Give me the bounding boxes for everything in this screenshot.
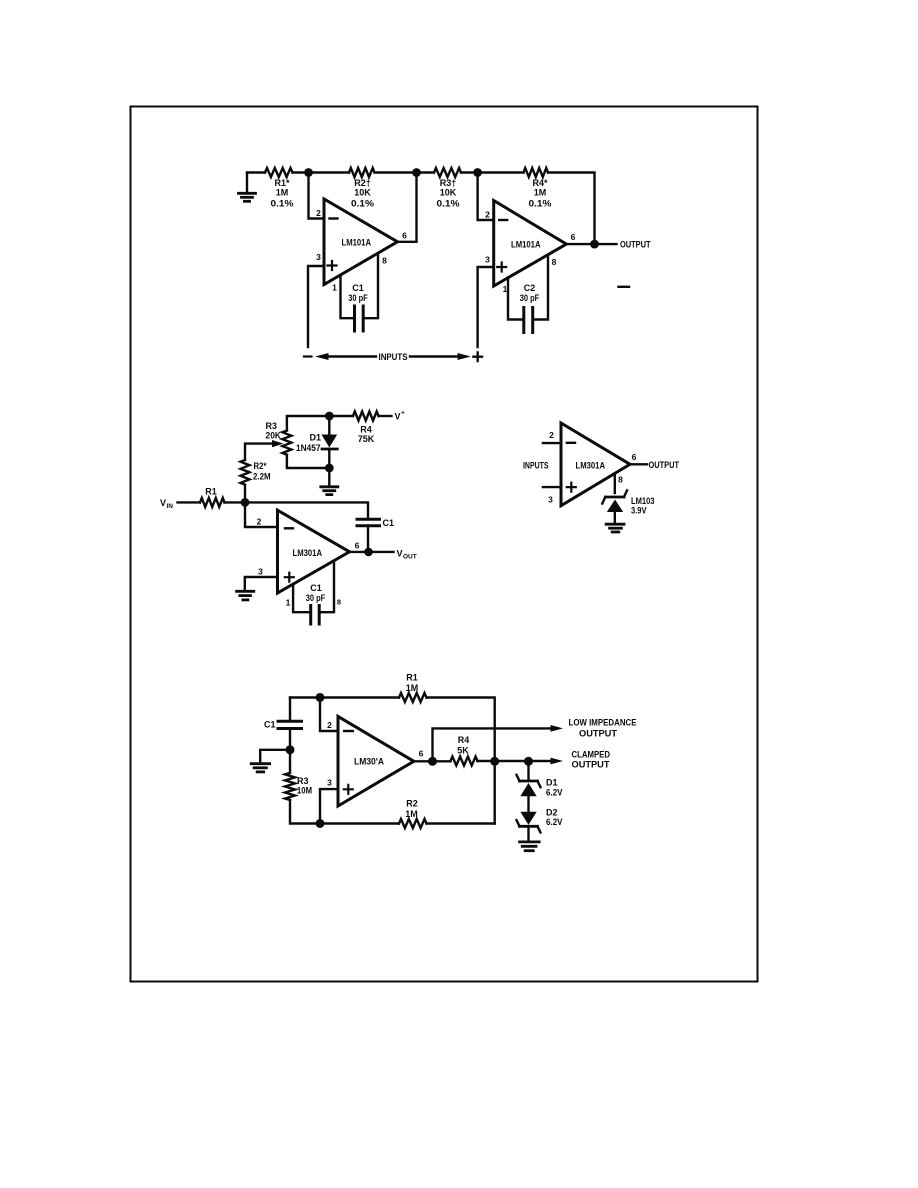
pin 3 label U4 — [548, 495, 553, 505]
node D junction — [241, 498, 250, 507]
svg-text:8: 8 — [552, 257, 557, 267]
pin 2 label U5 — [327, 720, 332, 730]
wire U4 output — [630, 463, 647, 465]
svg-text:IN: IN — [167, 503, 174, 510]
svg-text:C1: C1 — [264, 720, 276, 730]
svg-text:LM101A: LM101A — [511, 240, 541, 250]
svg-text:V: V — [397, 549, 403, 559]
wire VIN to R1 — [178, 501, 201, 503]
svg-text:R1*: R1* — [274, 178, 290, 188]
label CLAMPED OUTPUT — [572, 750, 611, 770]
svg-text:0.1%: 0.1% — [529, 199, 552, 209]
svg-text:3: 3 — [548, 495, 553, 505]
pin 3 stub U4 — [543, 486, 561, 488]
label LOW IMPEDANCE OUTPUT — [569, 718, 637, 739]
capacitor C1 30 pF (U3 comp) pin8 leg — [321, 562, 334, 613]
wire node C to pin 2 of U2 — [478, 173, 494, 221]
pin 6 label U2 — [571, 232, 576, 242]
node E junction — [325, 412, 334, 421]
svg-text:3: 3 — [258, 567, 263, 577]
node H junction — [286, 745, 295, 754]
node C junction — [473, 168, 482, 177]
resistor R2&#8224; 10K 0.1% — [349, 168, 375, 177]
svg-text:2: 2 — [327, 720, 332, 730]
wire node D up to R2* — [244, 485, 246, 503]
svg-text:C1: C1 — [352, 283, 364, 293]
pin 2 label U4 — [549, 430, 554, 440]
op-amp U3 LM301A — [278, 510, 350, 593]
node J junction — [428, 757, 437, 766]
label R3 10M — [297, 776, 312, 796]
svg-text:LM103: LM103 — [631, 496, 655, 506]
svg-text:30 pF: 30 pF — [306, 593, 326, 603]
wire node D to feedback cap corner — [245, 502, 368, 519]
svg-text:INPUTS: INPUTS — [523, 461, 549, 471]
wire R3 bottom to node F — [287, 455, 329, 468]
label R2 1M — [405, 799, 418, 820]
resistor R4* 1M 0.1% — [524, 168, 549, 177]
svg-text:R1: R1 — [205, 487, 217, 497]
svg-text:6.2V: 6.2V — [546, 787, 563, 797]
wire U2 output — [566, 243, 616, 245]
pin 8 leg U4 — [614, 474, 616, 493]
INPUTS arrow line — [304, 353, 471, 360]
svg-text:10M: 10M — [297, 786, 312, 796]
svg-text:6: 6 — [632, 452, 637, 462]
wire R4 to output feedback corner — [548, 173, 595, 244]
wire U1 minus input rail (pin 3 stub and input drop) — [308, 266, 324, 347]
label V+ — [395, 410, 406, 422]
pin 8 label U2 — [552, 257, 557, 267]
resistor R4 5K — [451, 757, 478, 766]
op-amp U4 LM301A — [561, 423, 630, 506]
svg-text:6.2V: 6.2V — [546, 817, 563, 827]
wire top-left down to C1 — [289, 698, 291, 720]
wire U1 output to node B riser — [398, 173, 417, 242]
svg-text:R3: R3 — [297, 776, 309, 786]
pin 3 label U1 — [316, 252, 321, 262]
svg-text:20K: 20K — [266, 431, 282, 441]
svg-text:LM30ʹA: LM30ʹA — [354, 757, 384, 767]
label C1 30 pF — [348, 283, 368, 303]
svg-text:30 pF: 30 pF — [520, 293, 540, 303]
svg-text:1: 1 — [286, 598, 291, 608]
pin 3 label U5 — [327, 778, 332, 788]
wire node D down to pin 2 of U3 — [245, 502, 278, 527]
svg-text:2: 2 — [549, 430, 554, 440]
svg-text:LOW IMPEDANCE: LOW IMPEDANCE — [569, 718, 637, 728]
capacitor C2 pin1 leg — [508, 278, 522, 320]
svg-text:1M: 1M — [534, 188, 547, 198]
label VOUT — [397, 549, 417, 561]
capacitor C1 (bottom circuit) plates — [278, 721, 302, 728]
svg-text:R3: R3 — [266, 421, 278, 431]
svg-text:0.1%: 0.1% — [271, 199, 294, 209]
svg-text:V: V — [160, 498, 166, 508]
pin 1 label U2 — [503, 284, 508, 294]
label R3 20K — [266, 421, 282, 441]
label D1 6.2V — [546, 778, 563, 798]
node F junction — [325, 464, 334, 473]
svg-text:2: 2 — [485, 210, 490, 220]
svg-text:V: V — [395, 412, 401, 422]
svg-text:2: 2 — [316, 208, 321, 218]
svg-text:6: 6 — [355, 541, 360, 551]
svg-text:2.2M: 2.2M — [253, 472, 271, 482]
label R1 1M — [406, 673, 419, 694]
svg-text:OUTPUT: OUTPUT — [620, 240, 651, 250]
node L junction (diode tap) — [524, 757, 533, 766]
svg-text:R1: R1 — [406, 673, 418, 683]
ground (top-left) — [239, 173, 256, 202]
pin 6 label U3 — [355, 541, 360, 551]
capacitor C2 plates — [524, 308, 533, 333]
wire R4 to clamped output — [478, 760, 557, 762]
pin 2 label U3 — [257, 517, 262, 527]
pin 1 label U1 — [332, 283, 337, 293]
wire R3 top to node E — [287, 416, 353, 431]
label VIN — [160, 498, 173, 510]
label R3&#8224; 10K 0.1% — [437, 178, 460, 209]
wire R1 to node A — [293, 171, 350, 173]
label R2* 2.2M — [253, 461, 271, 482]
label C1 (feedback) — [383, 518, 395, 528]
svg-text:1M: 1M — [276, 188, 289, 198]
zener D2 6.2V — [517, 812, 541, 841]
label C1 (bottom) — [264, 720, 276, 730]
svg-text:OUTPUT: OUTPUT — [572, 760, 611, 770]
ground at U3 plus input — [237, 577, 278, 600]
resistor R2 1M (bottom circuit) — [399, 819, 427, 828]
border frame — [131, 107, 758, 982]
svg-text:LM301A: LM301A — [576, 461, 606, 471]
wire C1 to node H — [289, 730, 291, 773]
pin 1 label U3 — [286, 598, 291, 608]
wire R2 to right rail — [427, 822, 495, 824]
capacitor C2 pin8 leg — [534, 256, 548, 320]
svg-text:R4*: R4* — [532, 178, 548, 188]
plus mark at right input — [473, 352, 482, 361]
label INPUTS (circuit 3) — [523, 461, 549, 471]
svg-text:D1: D1 — [310, 433, 322, 443]
wire R3 to node C — [461, 171, 524, 173]
svg-text:3: 3 — [327, 778, 332, 788]
wire node G to pin 2 of U5 — [320, 698, 338, 732]
node A junction — [304, 168, 313, 177]
label C1 30 pF (U3 comp) — [306, 583, 326, 603]
capacitor C1 30 pF (U1 comp) pin8 leg — [365, 254, 379, 319]
svg-text:OUTPUT: OUTPUT — [579, 729, 618, 739]
label C2 30 pF — [520, 283, 540, 303]
svg-text:3: 3 — [485, 255, 490, 265]
svg-text:6: 6 — [571, 232, 576, 242]
svg-text:R2: R2 — [406, 799, 418, 809]
svg-text:C1: C1 — [383, 518, 395, 528]
stray dash mark — [619, 286, 630, 288]
label R2&#8224; 10K 0.1% — [351, 178, 374, 209]
svg-text:CLAMPED: CLAMPED — [572, 750, 611, 760]
svg-text:LM301A: LM301A — [293, 548, 323, 558]
node OUTPUT junction — [590, 240, 599, 249]
pin 2 stub U4 — [543, 442, 561, 444]
svg-text:INPUTS: INPUTS — [379, 352, 408, 362]
resistor R2* 2.2M (vertical) — [241, 460, 250, 485]
node I junction — [316, 819, 325, 828]
svg-text:1M: 1M — [406, 683, 419, 693]
capacitor C1 plates — [355, 306, 364, 331]
ground stub at node H — [251, 750, 290, 772]
label OUTPUT — [620, 240, 651, 250]
svg-text:8: 8 — [382, 256, 387, 266]
label OUTPUT (circuit 3) — [649, 460, 680, 470]
resistor R3 10M (vertical) — [285, 773, 295, 800]
svg-text:30 pF: 30 pF — [348, 293, 368, 303]
svg-text:0.1%: 0.1% — [351, 199, 374, 209]
node VOUT junction — [364, 548, 373, 557]
svg-text:0.1%: 0.1% — [437, 199, 460, 209]
resistor R1 1M (bottom circuit) — [399, 693, 427, 702]
wire ground to R1 — [247, 171, 265, 173]
svg-text:1M: 1M — [405, 809, 418, 819]
svg-text:3: 3 — [316, 252, 321, 262]
node B junction — [412, 168, 421, 177]
label R4 75K — [358, 425, 375, 445]
wire node I to pin 3 of U5 — [320, 789, 338, 823]
capacitor C1 30 pF (U1 comp) pin1 leg — [341, 275, 354, 318]
wire R1 to node D — [225, 501, 246, 503]
op-amp U5 LM301A — [338, 716, 414, 806]
wiper arrow into R3 — [272, 440, 284, 447]
wire U5 output to node J — [414, 760, 451, 762]
pin 6 label U4 — [632, 452, 637, 462]
low impedance output line — [433, 725, 564, 761]
pin 3 label U3 — [258, 567, 263, 577]
svg-text:C2: C2 — [524, 283, 536, 293]
svg-text:5K: 5K — [457, 746, 469, 756]
wire U2 plus input rail — [478, 267, 494, 347]
wire R2* up and right to wiper arrow — [245, 444, 274, 460]
capacitor C1 30 pF (U3 comp) pin1 leg — [293, 585, 309, 612]
resistor R1* 1M 0.1% — [265, 168, 293, 177]
wire cap to output node — [367, 526, 369, 552]
wire R1 to right rail — [427, 698, 495, 824]
wire R3 to bottom rail — [290, 800, 399, 824]
svg-text:1: 1 — [332, 283, 337, 293]
svg-text:R2†: R2† — [354, 178, 371, 188]
node K junction (right rail) — [490, 757, 499, 766]
zener D1 6.2V — [517, 761, 541, 796]
wire node A to pin 2 of U1 — [309, 173, 325, 219]
capacitor C1 (U3 comp) plates — [311, 606, 320, 625]
capacitor C1 (feedback) plates — [357, 519, 380, 526]
svg-text:R4: R4 — [458, 735, 470, 745]
svg-text:8: 8 — [618, 475, 623, 485]
svg-text:+: + — [401, 410, 405, 417]
label D1 1N457 — [296, 433, 321, 453]
wire D1 to D2 — [527, 796, 529, 812]
resistor R1 (circuit 2) — [200, 498, 225, 507]
svg-text:2: 2 — [257, 517, 262, 527]
svg-text:R4: R4 — [360, 425, 372, 435]
svg-text:D2: D2 — [546, 807, 558, 817]
top feedback wire — [290, 696, 399, 698]
svg-text:8: 8 — [337, 598, 341, 607]
pin 3 label U2 — [485, 255, 490, 265]
svg-text:R3†: R3† — [440, 178, 457, 188]
resistor R4 75K — [353, 412, 379, 421]
pin 8 label U3 — [337, 598, 341, 607]
svg-text:OUT: OUT — [403, 554, 417, 561]
svg-text:10K: 10K — [440, 188, 457, 198]
label R1* 1M 0.1% — [271, 178, 294, 209]
svg-text:1N457: 1N457 — [296, 443, 321, 453]
pin 8 label U1 — [382, 256, 387, 266]
potentiometer R3 20K (vertical) — [282, 431, 291, 455]
label R1 — [205, 487, 217, 497]
label LM103 3.9V — [631, 496, 655, 516]
op-amp U1 LM101A — [324, 199, 398, 285]
svg-text:LM101A: LM101A — [342, 238, 372, 248]
label R4 5K — [457, 735, 469, 756]
pin 6 label U5 — [419, 749, 424, 759]
svg-text:3.9V: 3.9V — [631, 506, 647, 516]
pin 6 label U1 — [402, 231, 407, 241]
label R4* 1M 0.1% — [529, 178, 552, 209]
label D2 6.2V — [546, 807, 563, 827]
op-amp U2 LM101A — [494, 201, 567, 287]
node G junction — [316, 693, 325, 702]
svg-text:R2*: R2* — [254, 461, 267, 471]
pin 2 label U1 — [316, 208, 321, 218]
svg-text:C1: C1 — [310, 583, 322, 593]
svg-text:75K: 75K — [358, 434, 375, 444]
wire U3 output to VOUT — [350, 551, 394, 553]
label INPUTS — [379, 352, 408, 362]
pin 2 label U2 — [485, 210, 490, 220]
diode D1 1N457 — [322, 416, 338, 468]
wire R4 to V+ — [379, 415, 392, 417]
svg-text:10K: 10K — [354, 188, 371, 198]
ground below D2 — [520, 842, 540, 851]
svg-text:6: 6 — [419, 749, 424, 759]
clamped output arrow — [551, 758, 564, 765]
svg-text:D1: D1 — [546, 778, 558, 788]
svg-text:OUTPUT: OUTPUT — [649, 460, 680, 470]
ground below D1 — [321, 468, 338, 495]
pin 8 label U4 — [618, 475, 623, 485]
wire R2 to node B — [375, 171, 435, 173]
resistor R3&#8224; 10K 0.1% — [434, 168, 461, 177]
svg-text:6: 6 — [402, 231, 407, 241]
zener LM103 3.9V — [602, 491, 627, 524]
ground below LM103 — [606, 524, 624, 532]
